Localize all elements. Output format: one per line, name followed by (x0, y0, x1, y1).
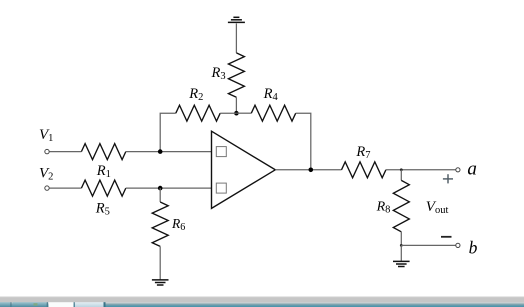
node R8/b junction (400, 244, 403, 247)
terminal V2 (45, 186, 49, 190)
terminal b (456, 243, 460, 247)
node R7/R8 junction (400, 168, 403, 171)
node output junction (309, 168, 314, 173)
node A (R1 / feedback junction) (158, 149, 163, 154)
resistor R6 (152, 202, 168, 246)
op-amp U1 (212, 131, 276, 208)
taskbar button 2 (13, 302, 47, 307)
wire node B down to R6 (159, 188, 161, 202)
window status bar (grey strip) (0, 296, 524, 302)
wire R4 right corner down to output node (296, 113, 311, 170)
wire R1 to op-amp inverting input (126, 151, 212, 153)
node feedback junction (234, 111, 239, 116)
wire node to R4 (236, 112, 251, 114)
ground (below R8) (393, 261, 410, 266)
terminal a (456, 168, 460, 172)
ground (top, above R3) (228, 17, 245, 22)
wire R2 to node (220, 112, 236, 114)
resistor R1 (81, 144, 125, 160)
wire junction down to R8 (400, 170, 402, 181)
wire R3 bottom to feedback node (235, 97, 237, 113)
node B (R5 / R6 junction) (158, 186, 163, 191)
taskbar button 1 (0, 302, 10, 307)
op-amp inverting input marker (square) (216, 147, 226, 157)
resistor R4 (251, 105, 295, 121)
wire top ground to R3 (235, 23, 237, 53)
resistor R8 (393, 180, 409, 231)
svg-text:a: a (467, 159, 477, 180)
resistor R5 (81, 180, 125, 196)
terminal V1 (45, 149, 49, 153)
svg-text:b: b (469, 237, 478, 257)
plus sign (443, 174, 453, 183)
wire R7 to terminal a (386, 169, 456, 171)
wire R8 to corner b (400, 232, 402, 246)
wire feedback left corner down to inverting input (160, 113, 176, 151)
resistor R7 (342, 162, 386, 178)
op-amp noninverting input marker (square) (216, 183, 226, 193)
taskbar button 4 (75, 302, 104, 307)
wire op-amp output to R7 (275, 169, 341, 171)
wire R6 to ground (159, 246, 161, 280)
resistor R2 (176, 105, 220, 121)
wire V2 to R5 (49, 187, 81, 189)
wire corner b down to ground (400, 245, 402, 261)
resistor R3 (228, 53, 244, 97)
ground (below R6) (152, 280, 169, 285)
minus sign (441, 236, 452, 238)
wire R5 to op-amp noninverting input (126, 187, 212, 189)
wire to terminal b (401, 244, 456, 246)
taskbar button 3 (white) (49, 302, 74, 307)
wire V1 to R1 (49, 151, 81, 153)
